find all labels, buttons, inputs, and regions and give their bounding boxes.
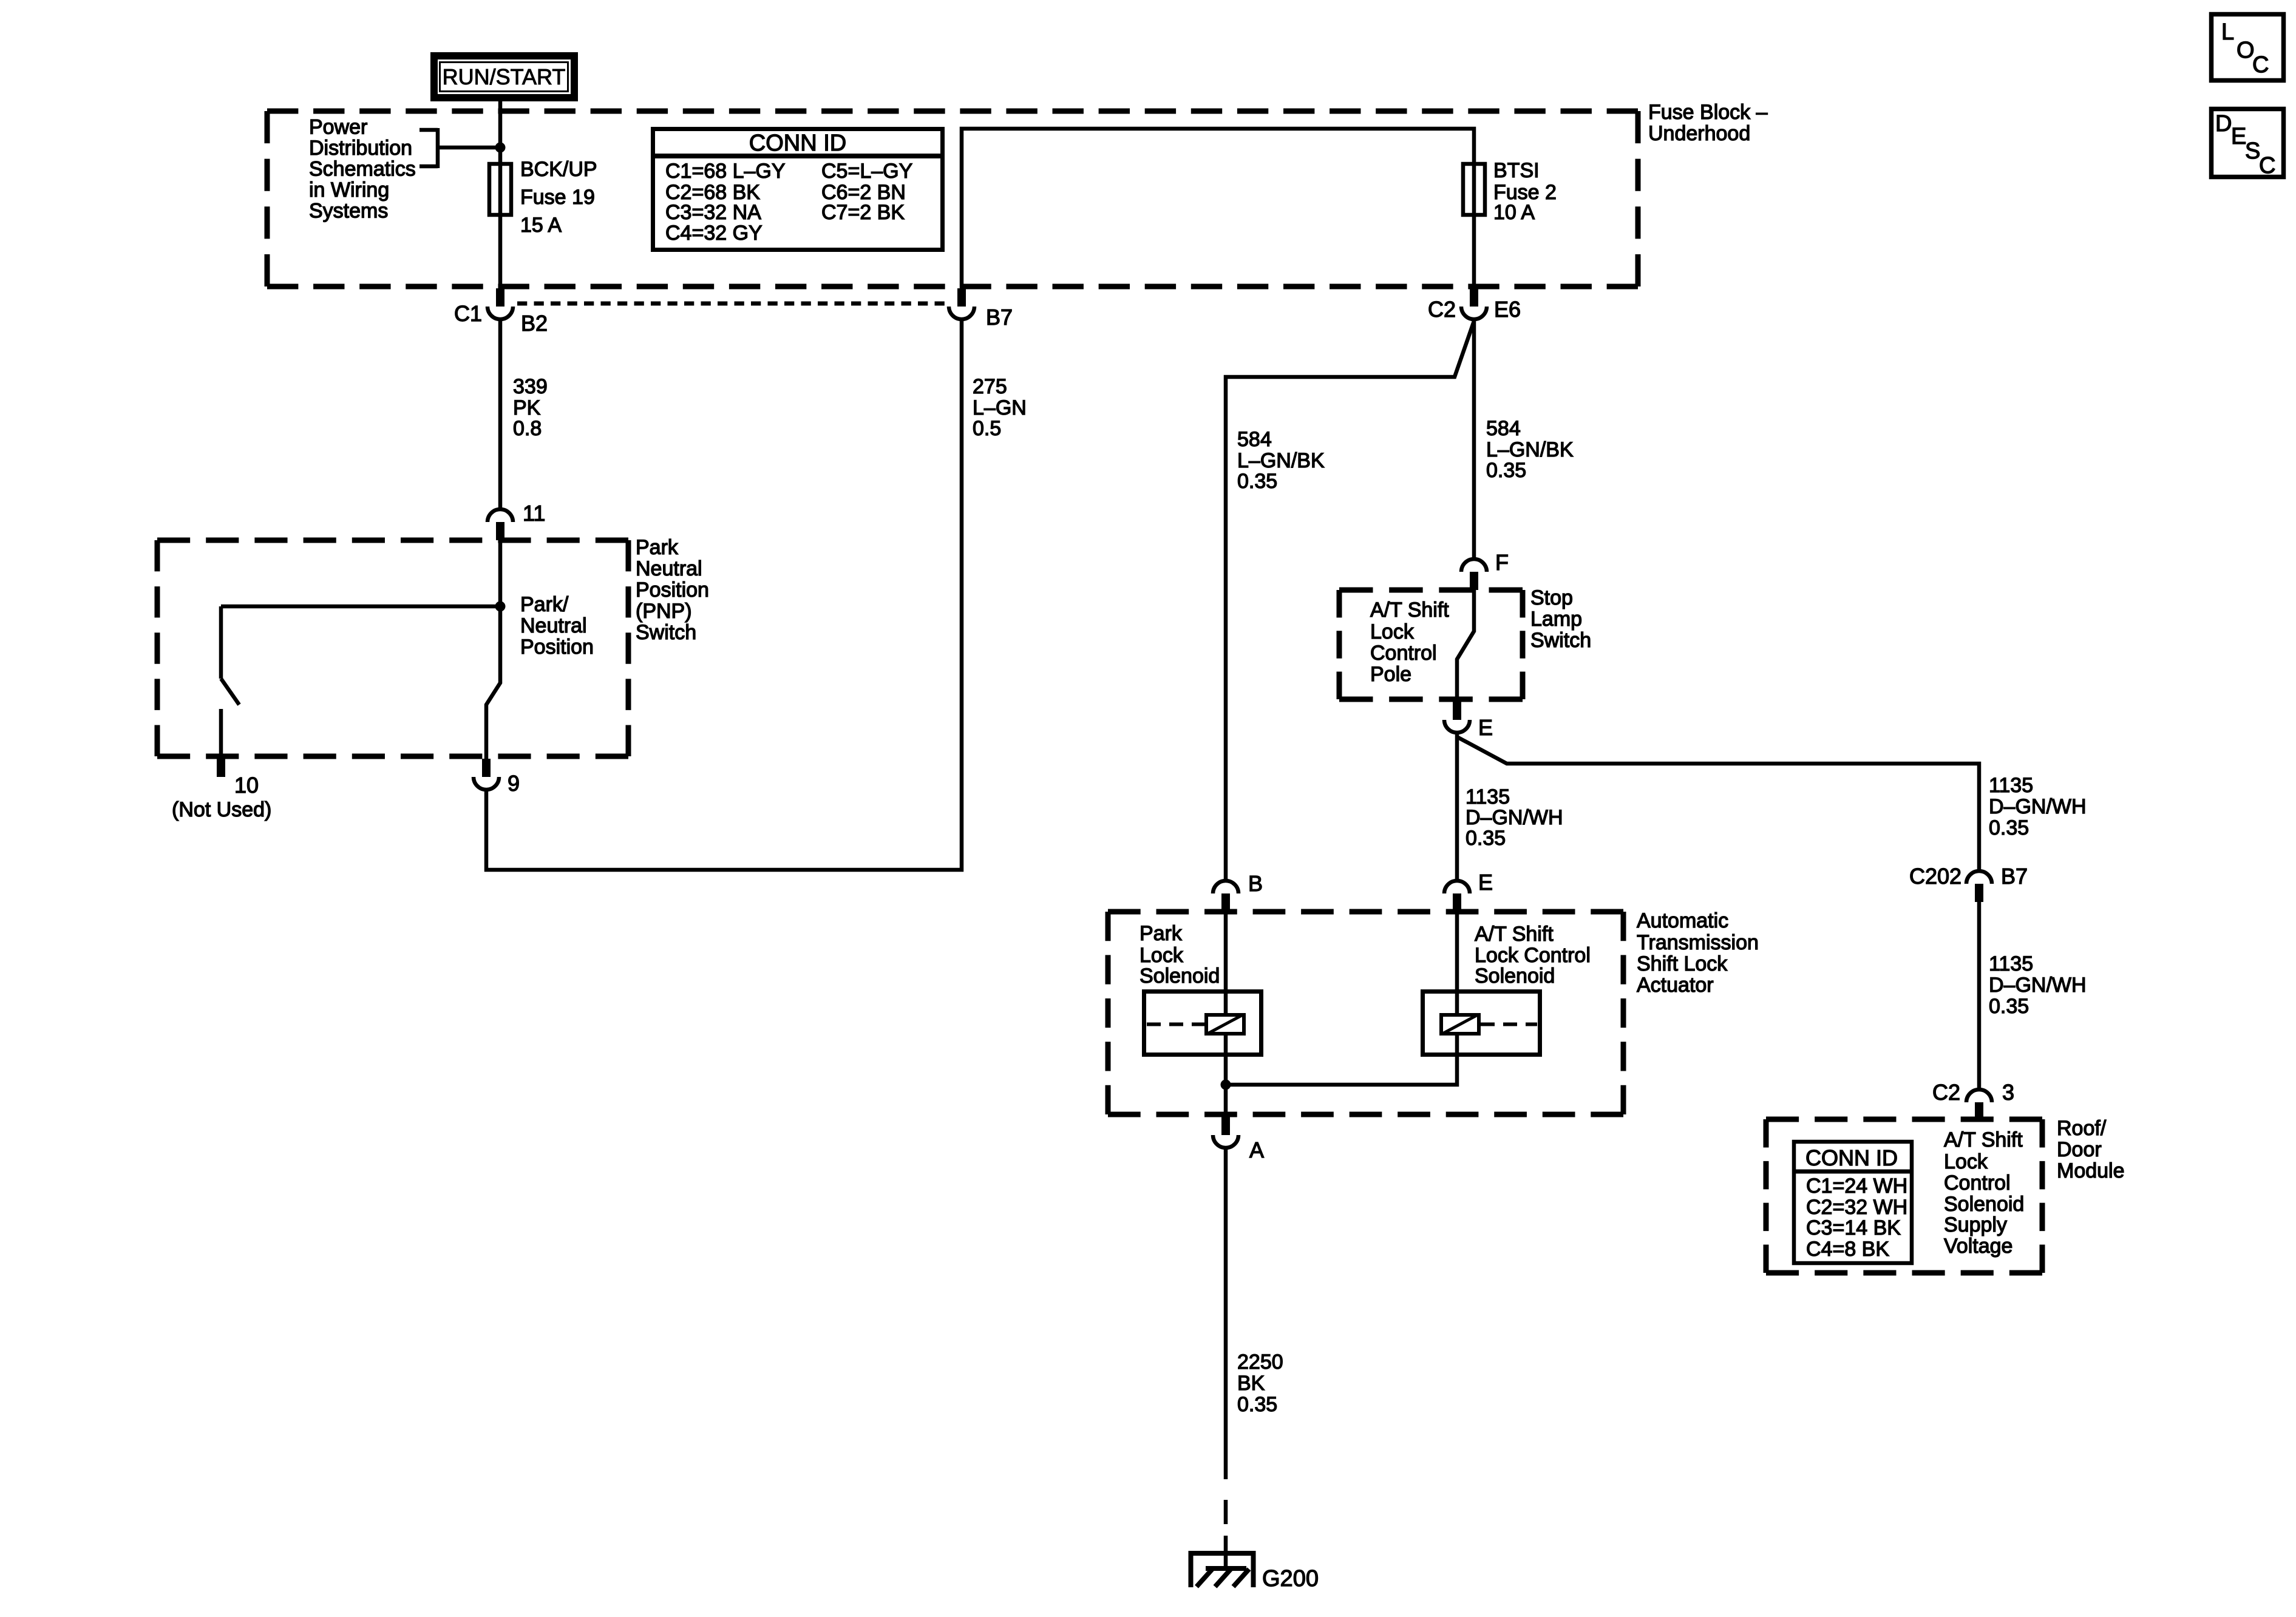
svg-text:C1: C1 — [454, 301, 482, 326]
svg-text:F: F — [1495, 550, 1509, 575]
svg-text:Underhood: Underhood — [1648, 122, 1750, 145]
svg-text:0.35: 0.35 — [1237, 470, 1277, 493]
svg-text:C5=L–GY: C5=L–GY — [821, 160, 912, 183]
svg-text:Lock: Lock — [1370, 620, 1415, 643]
svg-text:C1=24 WH: C1=24 WH — [1806, 1175, 1907, 1198]
svg-text:Lock Control: Lock Control — [1475, 944, 1591, 967]
svg-text:Park/: Park/ — [520, 593, 569, 616]
svg-text:C: C — [2259, 153, 2275, 178]
svg-text:CONN ID: CONN ID — [1805, 1145, 1898, 1170]
svg-text:Systems: Systems — [309, 200, 388, 223]
svg-text:C2: C2 — [1428, 297, 1456, 322]
svg-text:2250: 2250 — [1237, 1351, 1283, 1374]
svg-text:Switch: Switch — [636, 621, 696, 644]
svg-text:C7=2 BK: C7=2 BK — [821, 201, 905, 224]
svg-text:L–GN: L–GN — [973, 396, 1027, 419]
svg-text:Solenoid: Solenoid — [1475, 964, 1555, 988]
svg-text:in Wiring: in Wiring — [309, 178, 389, 202]
svg-text:D–GN/WH: D–GN/WH — [1466, 806, 1563, 829]
svg-text:B7: B7 — [986, 305, 1013, 330]
svg-text:Stop: Stop — [1530, 586, 1573, 609]
svg-text:Lock: Lock — [1140, 944, 1184, 967]
svg-text:E: E — [2231, 124, 2246, 149]
svg-text:0.35: 0.35 — [1466, 827, 1506, 850]
svg-text:C4=8 BK: C4=8 BK — [1806, 1238, 1889, 1261]
svg-text:Distribution: Distribution — [309, 137, 412, 160]
svg-text:Control: Control — [1370, 642, 1437, 665]
svg-text:Shift Lock: Shift Lock — [1637, 952, 1728, 975]
svg-text:1135: 1135 — [1466, 785, 1510, 808]
svg-text:CONN ID: CONN ID — [749, 131, 846, 156]
svg-text:Switch: Switch — [1530, 629, 1591, 652]
svg-text:9: 9 — [508, 771, 520, 796]
svg-text:L–GN/BK: L–GN/BK — [1237, 449, 1325, 472]
svg-text:339: 339 — [513, 375, 548, 398]
svg-text:Lamp: Lamp — [1530, 608, 1582, 631]
svg-text:E: E — [1478, 715, 1493, 740]
svg-text:E: E — [1478, 870, 1493, 895]
svg-text:584: 584 — [1237, 428, 1272, 451]
svg-text:Park: Park — [1140, 922, 1183, 945]
svg-text:B2: B2 — [521, 311, 548, 336]
svg-text:E6: E6 — [1494, 297, 1521, 322]
svg-text:D–GN/WH: D–GN/WH — [1989, 974, 2087, 997]
svg-text:1135: 1135 — [1989, 952, 2033, 975]
svg-text:BK: BK — [1237, 1372, 1265, 1395]
svg-text:C2: C2 — [1932, 1080, 1960, 1105]
svg-text:10 A: 10 A — [1493, 201, 1535, 224]
svg-text:B: B — [1248, 871, 1263, 896]
svg-text:A/T Shift: A/T Shift — [1944, 1128, 2023, 1151]
svg-text:0.35: 0.35 — [1486, 459, 1526, 482]
svg-text:0.35: 0.35 — [1989, 816, 2029, 839]
svg-text:Pole: Pole — [1370, 663, 1411, 686]
svg-text:B7: B7 — [2001, 864, 2028, 889]
svg-text:S: S — [2245, 138, 2260, 164]
svg-text:275: 275 — [973, 375, 1007, 398]
svg-text:1135: 1135 — [1989, 774, 2033, 797]
svg-text:0.5: 0.5 — [973, 417, 1001, 440]
svg-text:A/T Shift: A/T Shift — [1370, 598, 1449, 622]
svg-text:C1=68 L–GY: C1=68 L–GY — [665, 160, 786, 183]
svg-text:A: A — [1249, 1137, 1264, 1162]
svg-text:Lock: Lock — [1944, 1150, 1988, 1173]
svg-text:Solenoid: Solenoid — [1944, 1193, 2024, 1216]
svg-text:Park: Park — [636, 536, 679, 559]
svg-text:Roof/: Roof/ — [2057, 1117, 2107, 1140]
svg-text:Power: Power — [309, 116, 367, 139]
svg-text:Supply: Supply — [1944, 1213, 2007, 1236]
svg-text:Position: Position — [636, 578, 709, 602]
svg-text:0.35: 0.35 — [1237, 1393, 1277, 1416]
svg-text:C4=32 GY: C4=32 GY — [665, 222, 763, 245]
svg-text:Transmission: Transmission — [1637, 931, 1759, 954]
svg-text:C: C — [2252, 52, 2269, 78]
svg-text:G200: G200 — [1262, 1566, 1319, 1592]
svg-text:BTSI: BTSI — [1493, 159, 1540, 182]
svg-text:Neutral: Neutral — [636, 557, 702, 580]
svg-text:C3=14 BK: C3=14 BK — [1806, 1216, 1901, 1239]
svg-text:11: 11 — [523, 501, 545, 526]
svg-text:Fuse Block –: Fuse Block – — [1648, 101, 1768, 124]
svg-text:10: 10 — [234, 773, 259, 798]
svg-text:C2=32 WH: C2=32 WH — [1806, 1196, 1907, 1219]
svg-text:Position: Position — [520, 636, 594, 659]
svg-text:Voltage: Voltage — [1944, 1235, 2012, 1258]
svg-text:Module: Module — [2057, 1159, 2125, 1182]
svg-text:L: L — [2221, 19, 2234, 45]
svg-text:D: D — [2215, 111, 2232, 137]
svg-text:584: 584 — [1486, 417, 1521, 440]
svg-text:Control: Control — [1944, 1171, 2011, 1195]
svg-text:Schematics: Schematics — [309, 158, 416, 181]
svg-text:3: 3 — [2002, 1080, 2014, 1105]
svg-text:(PNP): (PNP) — [636, 600, 692, 623]
svg-text:0.35: 0.35 — [1989, 995, 2029, 1018]
svg-text:Actuator: Actuator — [1637, 974, 1714, 997]
svg-text:Fuse 19: Fuse 19 — [520, 186, 595, 209]
svg-text:Neutral: Neutral — [520, 614, 587, 637]
svg-text:Solenoid: Solenoid — [1140, 964, 1220, 988]
svg-text:D–GN/WH: D–GN/WH — [1989, 795, 2087, 818]
svg-text:15 A: 15 A — [520, 214, 562, 237]
svg-text:L–GN/BK: L–GN/BK — [1486, 438, 1574, 461]
svg-text:A/T Shift: A/T Shift — [1475, 923, 1554, 946]
svg-text:(Not Used): (Not Used) — [172, 798, 271, 821]
svg-text:RUN/START: RUN/START — [443, 64, 566, 89]
svg-text:BCK/UP: BCK/UP — [520, 158, 597, 181]
svg-text:Automatic: Automatic — [1637, 909, 1728, 932]
svg-text:Door: Door — [2057, 1138, 2102, 1161]
svg-text:C202: C202 — [1909, 864, 1961, 889]
svg-text:PK: PK — [513, 396, 541, 419]
svg-text:C3=32 NA: C3=32 NA — [665, 201, 761, 224]
svg-text:0.8: 0.8 — [513, 417, 542, 440]
